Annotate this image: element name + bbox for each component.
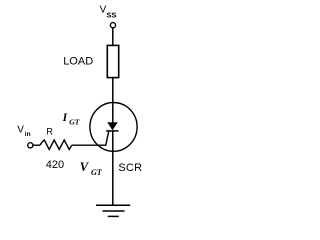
terminal VSS [110,23,115,28]
svg-text:SS: SS [106,11,116,20]
svg-text:R: R [46,127,53,137]
wire gate (R to SCR gate) [72,131,109,145]
svg-text:V: V [17,124,24,135]
wire LOAD to SCR anode [112,78,114,123]
svg-text:GT: GT [69,117,79,126]
svg-text:420: 420 [46,159,64,171]
terminal Vin [28,143,33,148]
wire SCR cathode to ground [112,131,114,205]
wire VSS terminal to LOAD [112,28,114,45]
svg-text:in: in [25,131,31,138]
ground [96,205,130,216]
resistor R zigzag [40,140,72,150]
SCR triangle (anode-cathode) [108,123,117,130]
svg-text:LOAD: LOAD [63,56,93,68]
label V_GT [80,160,103,177]
SCR cathode bar [106,130,118,132]
wire Vin terminal to resistor R [33,144,40,146]
svg-text:I: I [62,112,68,124]
svg-text:SCR: SCR [118,162,142,174]
node Vin label [17,124,30,138]
svg-text:GT: GT [91,168,103,177]
resistor LOAD (rectangle body) [107,45,118,77]
node VSS label [100,4,117,19]
SCR body circle [90,103,137,152]
label I_GT [62,112,80,126]
